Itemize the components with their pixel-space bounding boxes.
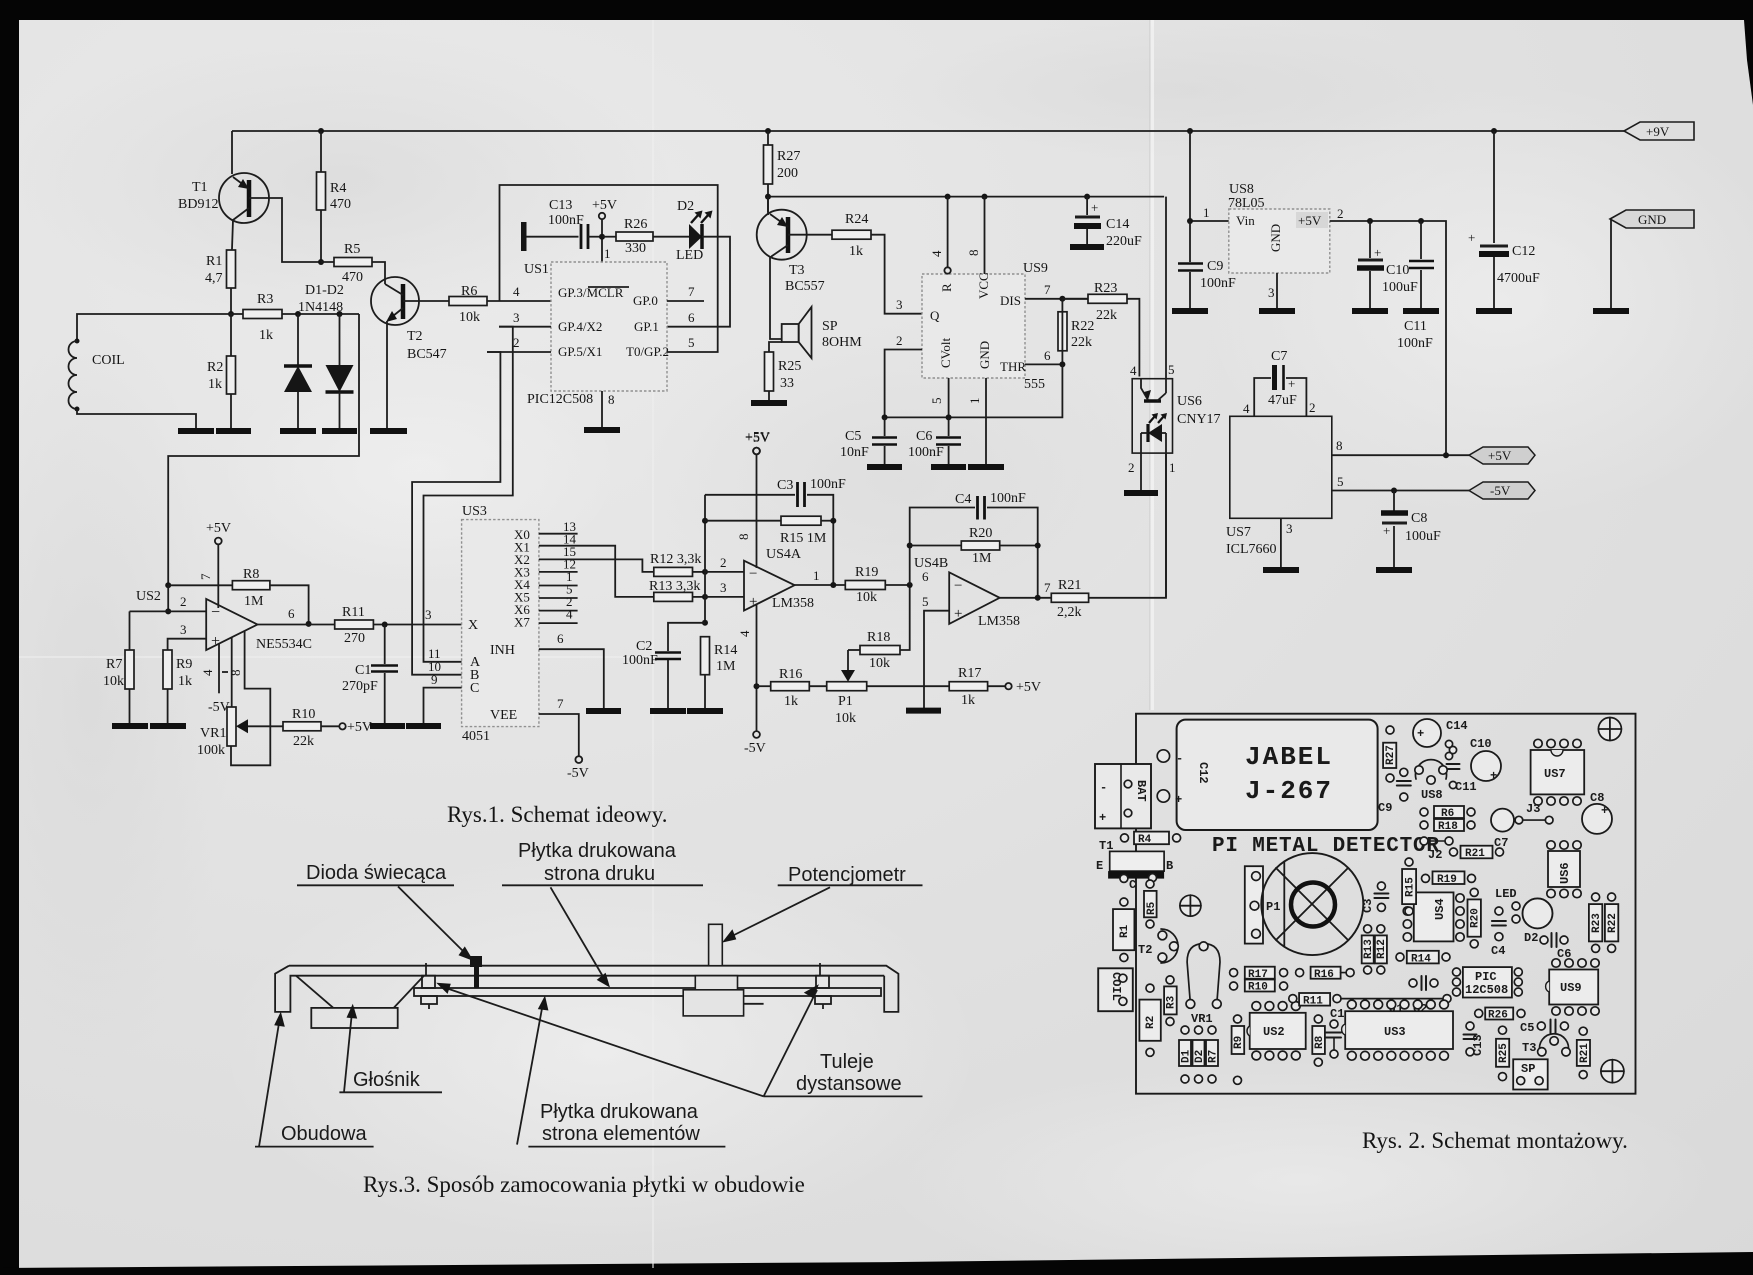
svg-text:9: 9 — [431, 672, 438, 687]
svg-text:8: 8 — [966, 250, 981, 257]
svg-text:Vin: Vin — [1236, 213, 1255, 228]
resistor R20 pcb — [1468, 899, 1481, 936]
resistor R12 — [654, 567, 693, 576]
svg-text:Obudowa: Obudowa — [281, 1123, 367, 1145]
potentiometer P1 pcb — [1245, 866, 1263, 943]
svg-text:4: 4 — [200, 669, 215, 676]
svg-text:D2: D2 — [1194, 1050, 1206, 1063]
svg-text:ICL7660: ICL7660 — [1226, 542, 1277, 557]
svg-text:7: 7 — [198, 573, 213, 580]
resistor R27 pcb — [1383, 743, 1396, 768]
+5V terminal R10 — [339, 723, 345, 729]
svg-text:4: 4 — [1130, 363, 1137, 378]
IC US2 pcb — [1250, 1013, 1306, 1049]
resistor R4 — [320, 131, 322, 262]
svg-text:R26: R26 — [624, 217, 647, 232]
svg-text:GP.1: GP.1 — [634, 319, 659, 334]
svg-text:5: 5 — [922, 594, 929, 609]
IC US9 pcb — [1549, 970, 1598, 1005]
resistors R6 R18 pcb — [1434, 806, 1464, 818]
svg-text:+5V: +5V — [1488, 448, 1512, 463]
US6 phototransistor — [1165, 197, 1167, 393]
node R4-R5 — [318, 259, 324, 265]
resistor R8 pcb — [1312, 1026, 1325, 1054]
capacitor C4 pcb — [1495, 907, 1503, 915]
US6 pin2 ground — [1140, 433, 1142, 493]
ground D2 — [322, 428, 357, 434]
svg-text:LM358: LM358 — [978, 614, 1020, 629]
svg-text:R3: R3 — [1166, 995, 1178, 1009]
leader to PCB top — [551, 887, 606, 980]
pin 1 gnd — [985, 378, 987, 467]
svg-text:2,2k: 2,2k — [1057, 605, 1082, 620]
svg-text:1: 1 — [1203, 205, 1210, 220]
node R8 row — [165, 582, 171, 588]
svg-text:R15: R15 — [1404, 877, 1416, 897]
svg-text:J3: J3 — [1526, 802, 1540, 816]
svg-text:1: 1 — [967, 398, 982, 405]
capacitor C4 — [910, 508, 975, 586]
transistor T3 — [767, 197, 769, 212]
svg-text:1M: 1M — [972, 551, 992, 566]
speaker SP — [782, 324, 799, 342]
svg-text:100nF: 100nF — [908, 445, 944, 460]
potentiometer P1 — [827, 682, 867, 691]
leader to left standoff — [443, 987, 764, 1096]
svg-text:R1: R1 — [206, 254, 222, 269]
svg-text:C5: C5 — [1520, 1021, 1534, 1035]
svg-text:Rys.3. Sposób zamocowania płyt: Rys.3. Sposób zamocowania płytki w obudo… — [363, 1172, 805, 1197]
pin 4 reset — [947, 197, 949, 267]
resistor R9 pcb — [1232, 1026, 1245, 1054]
svg-text:5: 5 — [929, 398, 944, 405]
resistor R2 pcb — [1139, 1000, 1160, 1041]
svg-text:2: 2 — [896, 333, 903, 348]
capacitor C2 — [668, 623, 705, 651]
PCB board outline — [1136, 714, 1636, 1094]
capacitor C6 pcb — [1540, 936, 1548, 944]
svg-text:R27: R27 — [777, 149, 800, 164]
svg-text:R20: R20 — [1470, 908, 1482, 928]
svg-text:5: 5 — [1168, 362, 1175, 377]
svg-text:1M: 1M — [244, 594, 264, 609]
svg-text:+5V: +5V — [1016, 680, 1041, 695]
svg-text:7: 7 — [557, 696, 564, 711]
svg-text:J2: J2 — [1428, 848, 1442, 862]
capacitor C11 — [1420, 221, 1422, 259]
capacitor C7 pcb — [1491, 809, 1514, 832]
resistor R18 — [848, 649, 860, 651]
svg-text:+: + — [1490, 769, 1497, 783]
capacitor C10 — [1369, 221, 1371, 258]
capacitor C5 — [884, 417, 886, 436]
optocoupler US6 CNY17 — [1132, 379, 1172, 453]
svg-text:PIC12C508: PIC12C508 — [527, 392, 593, 407]
svg-text:VR1: VR1 — [200, 726, 226, 741]
svg-text:R19: R19 — [855, 565, 878, 580]
wire GND flag to ground — [1610, 219, 1611, 311]
node R3-D2 — [337, 311, 343, 317]
svg-text:BC557: BC557 — [785, 279, 825, 294]
ground T2 — [370, 428, 407, 434]
resistor R16 pcb — [1311, 967, 1341, 979]
resistor R24 — [832, 230, 871, 239]
svg-text:4: 4 — [737, 630, 752, 637]
svg-text:6: 6 — [557, 631, 564, 646]
svg-text:CNY17: CNY17 — [1177, 412, 1221, 427]
svg-text:8: 8 — [1336, 438, 1343, 453]
svg-text:B: B — [1166, 859, 1173, 873]
svg-text:Dioda świecąca: Dioda świecąca — [306, 862, 447, 884]
node rail-US8 — [1187, 128, 1193, 134]
svg-text:R5: R5 — [1146, 901, 1158, 915]
pin5 to VR1 top — [231, 637, 233, 707]
svg-text:VR1: VR1 — [1191, 1012, 1213, 1026]
coil L1 — [77, 314, 231, 340]
svg-text:GND: GND — [1268, 224, 1283, 252]
svg-text:R14: R14 — [1411, 953, 1431, 965]
svg-text:R12 3,3k: R12 3,3k — [650, 552, 701, 567]
svg-text:C: C — [470, 681, 479, 696]
svg-text:D2: D2 — [1524, 931, 1538, 945]
svg-text:T3: T3 — [789, 263, 805, 278]
svg-text:US9: US9 — [1560, 981, 1582, 995]
battery wire pads — [1157, 750, 1169, 762]
standoff right — [816, 976, 829, 988]
US6 LED — [1148, 424, 1162, 442]
svg-text:Płytka drukowana: Płytka drukowana — [518, 840, 677, 862]
svg-text:+5V: +5V — [592, 198, 617, 213]
svg-text:US4: US4 — [1433, 898, 1447, 920]
svg-text:1: 1 — [1169, 460, 1176, 475]
svg-text:+: + — [1099, 811, 1106, 825]
wire THR to C5 row — [885, 364, 1063, 417]
svg-text:C11: C11 — [1455, 780, 1477, 794]
pin C ground wire — [424, 688, 462, 726]
diode D2 — [339, 314, 341, 365]
capacitor C10 pcb — [1471, 751, 1501, 781]
leader to PCB bottom — [517, 1003, 543, 1145]
svg-text:US4A: US4A — [766, 547, 802, 562]
transistor T2 — [371, 277, 419, 325]
svg-text:US4B: US4B — [914, 556, 948, 571]
svg-text:Potencjometr: Potencjometr — [788, 864, 906, 886]
svg-text:3: 3 — [425, 607, 432, 622]
wire US8 out — [1330, 221, 1446, 455]
svg-text:4: 4 — [513, 284, 520, 299]
svg-text:R2: R2 — [207, 360, 223, 375]
ground coil — [178, 428, 214, 434]
fold crease vertical right — [1151, 20, 1154, 710]
svg-text:LED: LED — [676, 248, 703, 263]
svg-text:3: 3 — [1286, 521, 1293, 536]
node R1-R3 — [228, 311, 234, 317]
ground R9 — [150, 723, 186, 729]
resistor R10 — [283, 722, 321, 731]
svg-text:R2: R2 — [1145, 1016, 1157, 1029]
node rail-R27 — [765, 128, 771, 134]
svg-text:R: R — [939, 283, 954, 292]
svg-text:US7: US7 — [1226, 525, 1251, 540]
svg-text:7: 7 — [688, 284, 695, 299]
svg-text:Głośnik: Głośnik — [353, 1069, 421, 1091]
resistor R5 — [321, 262, 385, 284]
resistor R16 — [754, 683, 760, 689]
svg-text:T2: T2 — [1138, 943, 1152, 957]
svg-text:+5V: +5V — [347, 720, 372, 735]
svg-text:strona elementów: strona elementów — [542, 1123, 700, 1145]
GND flag — [1610, 210, 1694, 228]
svg-text:JABEL: JABEL — [1245, 742, 1333, 772]
wire T3 emitter rail — [768, 196, 1164, 198]
svg-text:C12: C12 — [1196, 762, 1210, 784]
svg-text:strona druku: strona druku — [544, 863, 655, 885]
resistor R26 — [602, 236, 616, 238]
pin6 output row — [306, 621, 312, 627]
transistor US8 pcb — [1416, 760, 1447, 779]
svg-text:R16: R16 — [1314, 969, 1334, 981]
ground US1 — [584, 427, 620, 433]
svg-text:-5V: -5V — [744, 741, 766, 756]
svg-text:1k: 1k — [208, 377, 222, 392]
svg-text:Rys.1. Schemat ideowy.: Rys.1. Schemat ideowy. — [447, 802, 668, 827]
svg-text:2: 2 — [1337, 206, 1344, 221]
resistor R2 — [230, 314, 232, 431]
svg-text:SP: SP — [822, 319, 838, 334]
IC US3 pcb — [1345, 1011, 1453, 1049]
svg-text:1k: 1k — [849, 244, 863, 259]
svg-text:C6: C6 — [916, 429, 932, 444]
pin 7 GP.0 — [667, 300, 704, 302]
svg-text:C10: C10 — [1386, 263, 1409, 278]
pin 5 cvolt — [948, 378, 950, 417]
resistors R17 R10 pcb — [1245, 967, 1275, 979]
pin2 wire — [705, 571, 744, 573]
node rail-R4 — [318, 128, 324, 134]
svg-text:270pF: 270pF — [342, 679, 378, 694]
svg-text:1: 1 — [813, 568, 820, 583]
svg-text:200: 200 — [777, 166, 798, 181]
svg-text:R15 1M: R15 1M — [780, 531, 827, 546]
svg-text:R25: R25 — [1498, 1043, 1510, 1063]
svg-text:C5: C5 — [845, 429, 861, 444]
svg-text:-5V: -5V — [1490, 483, 1511, 498]
wire to pin2 — [167, 585, 169, 611]
svg-text:10k: 10k — [103, 674, 124, 689]
resistor R8 — [168, 584, 232, 586]
svg-text:100k: 100k — [197, 743, 225, 758]
potentiometer shaft — [709, 924, 723, 965]
mounting hole bottom right — [1601, 1060, 1624, 1083]
svg-text:R14: R14 — [714, 643, 737, 658]
pin 6 THR — [1025, 363, 1062, 365]
capacitor C12 — [1493, 131, 1495, 243]
svg-text:1: 1 — [604, 246, 611, 261]
svg-text:3: 3 — [513, 310, 520, 325]
svg-text:D1: D1 — [1181, 1049, 1193, 1063]
svg-text:CVolt: CVolt — [938, 338, 953, 368]
node pin2 — [702, 569, 708, 575]
svg-text:R24: R24 — [845, 212, 868, 227]
svg-text:US9: US9 — [1023, 261, 1048, 276]
resistor R25 pcb — [1496, 1039, 1509, 1067]
svg-text:+5V: +5V — [1298, 213, 1322, 228]
+9V power rail wire — [232, 130, 1624, 132]
svg-text:SP: SP — [1521, 1062, 1535, 1076]
feedback left vertical — [704, 495, 706, 623]
scanner black border right top — [1744, 0, 1753, 105]
node pin6 — [907, 582, 913, 588]
+5V flag — [1469, 447, 1535, 464]
svg-text:2: 2 — [513, 335, 520, 350]
svg-text:GND: GND — [1638, 212, 1666, 227]
INH pin — [539, 649, 604, 711]
svg-text:R26: R26 — [1488, 1010, 1508, 1022]
fold crease vertical left — [652, 20, 654, 1268]
capacitor C11 pcb — [1449, 746, 1456, 753]
svg-text:100nF: 100nF — [990, 491, 1026, 506]
IC US7 pcb — [1531, 750, 1585, 794]
svg-text:C2: C2 — [636, 639, 652, 654]
jumper J1 and capacitor C2 pcb — [1341, 998, 1443, 1000]
IC US4 pcb — [1414, 892, 1454, 941]
LED D2 — [689, 224, 702, 249]
svg-text:4: 4 — [1243, 401, 1250, 416]
svg-text:1M: 1M — [716, 659, 736, 674]
svg-text:6: 6 — [922, 569, 929, 584]
potentiometer bushing — [695, 976, 737, 990]
svg-text:6: 6 — [688, 310, 695, 325]
VEE pin — [539, 714, 579, 756]
leader to pot shaft — [728, 887, 830, 938]
wire R6 to US1 pin4 and loop — [512, 300, 551, 302]
svg-text:100nF: 100nF — [810, 477, 846, 492]
svg-text:R27: R27 — [1385, 745, 1397, 765]
svg-text:3: 3 — [1268, 285, 1275, 300]
svg-text:C1: C1 — [355, 663, 371, 678]
svg-text:R10: R10 — [1248, 982, 1268, 994]
transistor T1 — [231, 131, 233, 174]
svg-text:C1: C1 — [1330, 1007, 1344, 1021]
svg-text:22k: 22k — [1071, 335, 1092, 350]
svg-text:+: + — [1091, 200, 1098, 215]
svg-text:US7: US7 — [1544, 767, 1566, 781]
svg-text:C14: C14 — [1106, 217, 1129, 232]
US7 pin8 to +5V — [1332, 454, 1469, 456]
resistor R11 — [335, 620, 374, 629]
trimmer VR1 pcb — [1187, 944, 1220, 1004]
svg-text:R22: R22 — [1607, 913, 1619, 933]
svg-text:R1: R1 — [1119, 924, 1131, 938]
svg-text:R13: R13 — [1363, 939, 1375, 959]
ground R2 — [216, 428, 251, 434]
resistor R1 pcb — [1113, 909, 1134, 950]
IC US1 PIC12C508 — [551, 262, 667, 391]
resistor R19 pcb — [1433, 871, 1465, 884]
svg-text:C4: C4 — [1491, 944, 1505, 958]
node rail-C12 — [1491, 128, 1497, 134]
resistor R15 pcb — [1402, 869, 1416, 904]
svg-text:47uF: 47uF — [1268, 393, 1297, 408]
battery connector BAT — [1095, 764, 1151, 828]
wire T1 base to R5 node — [249, 198, 321, 262]
resistor R23 — [1062, 298, 1088, 300]
svg-text:C8: C8 — [1590, 791, 1604, 805]
svg-text:R16: R16 — [779, 667, 802, 682]
svg-text:2: 2 — [1128, 460, 1135, 475]
pin8 comp loop — [231, 631, 270, 766]
wire US8 gnd — [1276, 273, 1278, 311]
svg-text:1k: 1k — [178, 674, 192, 689]
svg-text:P1: P1 — [838, 694, 853, 709]
svg-text:+5V: +5V — [745, 430, 770, 445]
resistor R26 pcb — [1485, 1008, 1513, 1020]
svg-text:1k: 1k — [259, 328, 273, 343]
-5V flag — [1469, 482, 1535, 499]
resistors R13 R12 pcb — [1362, 935, 1374, 963]
svg-text:R6: R6 — [461, 284, 477, 299]
svg-text:R9: R9 — [176, 657, 192, 672]
label box JABEL J-267 — [1177, 720, 1378, 830]
pin 8 vcc — [984, 197, 986, 274]
svg-text:C4: C4 — [955, 492, 971, 507]
svg-text:1k: 1k — [961, 693, 975, 708]
svg-text:US3: US3 — [462, 504, 487, 519]
svg-text:R21: R21 — [1465, 848, 1485, 860]
mounting hole top right — [1598, 718, 1621, 741]
pin 3 GP.4/X2 — [499, 326, 551, 328]
svg-text:D1-D2: D1-D2 — [305, 283, 344, 298]
svg-text:+: + — [1417, 727, 1424, 741]
svg-text:3: 3 — [180, 622, 187, 637]
svg-text:R21: R21 — [1579, 1043, 1591, 1063]
svg-text:-: - — [1176, 752, 1183, 766]
svg-text:R13 3,3k: R13 3,3k — [649, 579, 700, 594]
speaker SP pcb — [1513, 1059, 1548, 1089]
svg-text:US8: US8 — [1421, 788, 1443, 802]
svg-text:8: 8 — [608, 392, 615, 407]
resistor R25 — [769, 342, 782, 403]
svg-text:1N4148: 1N4148 — [298, 300, 343, 315]
svg-text:R25: R25 — [778, 359, 801, 374]
svg-text:+9V: +9V — [1646, 124, 1670, 139]
capacitor C3 — [705, 494, 795, 496]
svg-text:1k: 1k — [784, 694, 798, 709]
svg-text:VCC: VCC — [976, 272, 991, 299]
svg-text:6: 6 — [1044, 348, 1051, 363]
svg-text:R17: R17 — [958, 666, 981, 681]
svg-text:4,7: 4,7 — [205, 271, 223, 286]
svg-text:C: C — [1129, 878, 1136, 892]
svg-text:R9: R9 — [1233, 1036, 1245, 1049]
capacitor C8 pcb — [1582, 804, 1612, 834]
svg-text:R19: R19 — [1437, 874, 1457, 886]
ground D1 — [280, 428, 316, 434]
svg-text:GND: GND — [977, 341, 992, 369]
svg-text:C3: C3 — [777, 478, 793, 493]
svg-text:+5V: +5V — [206, 521, 231, 536]
svg-text:X: X — [468, 618, 478, 633]
resistor R13 — [654, 592, 693, 601]
svg-text:7: 7 — [1044, 580, 1051, 595]
svg-text:Rys. 2. Schemat montażowy.: Rys. 2. Schemat montażowy. — [1362, 1128, 1628, 1153]
resistor R21 — [1051, 593, 1088, 602]
resistor R4 pcb — [1134, 832, 1169, 845]
svg-text:100nF: 100nF — [1200, 276, 1236, 291]
pot solder tab — [744, 1003, 764, 1005]
svg-text:4: 4 — [929, 250, 944, 257]
capacitor C6 — [946, 414, 952, 420]
